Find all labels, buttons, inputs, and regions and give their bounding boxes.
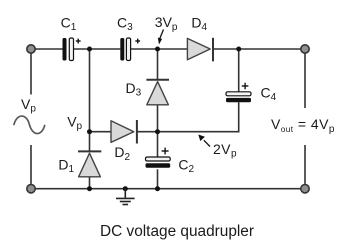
wire 3Vp node to D3 cathode: [157, 49, 159, 80]
wire D4 node down to C4: [238, 49, 240, 92]
node 3Vp: [155, 47, 160, 52]
wire top rail D4 to right terminal: [213, 48, 305, 50]
wire left source lower: [30, 145, 32, 189]
wire D3 anode to middle node: [157, 105, 159, 132]
node D4 output: [236, 47, 241, 52]
source Vp sine squiggle: [14, 116, 45, 133]
svg-text:DC voltage quadrupler: DC voltage quadrupler: [100, 223, 254, 240]
capacitor C3: [120, 38, 140, 61]
svg-text:Vout = 4Vp: Vout = 4Vp: [271, 116, 335, 135]
wire left source upper: [30, 49, 32, 95]
node C1-C3 junction: [87, 47, 92, 52]
wire right output lower: [304, 145, 306, 189]
wire middle node to C2: [157, 132, 159, 157]
node D1 bottom: [87, 186, 92, 191]
wire top rail left segment: [31, 48, 63, 50]
wire top rail C3 to D4: [131, 48, 188, 50]
wire D1 to bottom rail: [89, 177, 91, 189]
wire D2 cathode to middle node: [137, 131, 158, 133]
2Vp arrow: [198, 135, 210, 147]
ground: [116, 189, 135, 205]
wire vertical C1C3 node down to D1: [89, 49, 91, 151]
terminal bottom-left: [27, 185, 35, 193]
node Vp middle: [87, 129, 92, 134]
terminal top-left: [27, 45, 35, 53]
wire bottom rail: [31, 188, 305, 190]
node ground junction: [123, 186, 128, 191]
wire C2 to bottom rail: [157, 169, 159, 188]
wire C4 down then left to middle node: [158, 102, 239, 131]
3Vp arrow: [158, 30, 164, 45]
wire middle node to D2 anode: [90, 131, 112, 133]
node C2 bottom: [155, 186, 160, 191]
diode D4: [187, 38, 213, 62]
wire top rail C1 to C3: [74, 48, 121, 50]
diode D2: [111, 120, 137, 144]
wire right output upper: [304, 49, 306, 108]
capacitor C1: [63, 38, 81, 61]
capacitor C4: [226, 83, 251, 103]
node 2Vp middle: [155, 129, 160, 134]
terminal bottom-right: [301, 185, 309, 193]
diode D3: [146, 80, 169, 105]
terminal top-right: [301, 45, 309, 53]
capacitor C2: [146, 148, 171, 168]
diode D1: [78, 151, 101, 176]
